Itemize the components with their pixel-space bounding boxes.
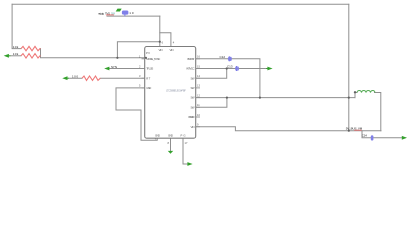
svg-text:VIN: VIN (170, 48, 174, 52)
wire right pin SW1 down-tie (196, 69, 227, 79)
svg-text:C12: C12 (220, 55, 226, 59)
wire resistor R2 lead (9, 55, 21, 57)
wire left vertical from top net to resistor R1 (12, 4, 21, 48)
wire inductor right lead down (375, 93, 381, 131)
resistor R2 (21, 54, 41, 58)
svg-text:16: 16 (197, 55, 200, 59)
junction dots (116, 41, 356, 132)
port arrow left pin 2 (104, 67, 109, 71)
svg-text:17: 17 (185, 141, 188, 145)
svg-text:SW: SW (191, 96, 195, 100)
wire right pin INTVCC to port (196, 68, 268, 70)
svg-text:PG: PG (181, 134, 186, 138)
wire right pin VIN to bottom rail (196, 127, 381, 131)
resistor R1 (21, 46, 41, 50)
svg-text:8: 8 (168, 141, 170, 145)
svg-text:10: 10 (197, 113, 200, 117)
ground arrow down (168, 151, 173, 154)
svg-text:net_sig: net_sig (98, 11, 104, 15)
wire left pin 2 to port (109, 68, 145, 70)
svg-text:RT: RT (146, 76, 150, 80)
svg-text:11: 11 (197, 103, 200, 107)
svg-text:VIN: VIN (159, 48, 163, 52)
wire junction riser to top pin net (117, 42, 159, 58)
svg-text:5: 5 (139, 84, 141, 88)
wire TVS net horizontal (107, 15, 160, 17)
svg-text:15: 15 (197, 64, 200, 68)
svg-text:12: 12 (197, 93, 200, 97)
svg-text:GND: GND (155, 134, 160, 138)
capacitor C1 on BST wire (229, 56, 231, 61)
wire left pin 4 loop to bottom pin (116, 88, 157, 140)
svg-text:C14: C14 (362, 133, 367, 137)
svg-text:TR_SS: TR_SS (146, 67, 153, 71)
svg-text:INTVCC: INTVCC (187, 67, 195, 71)
net label texts (tiny smudges) (13, 11, 367, 137)
red underline 5V_BUS label (354, 129, 362, 131)
svg-text:3: 3 (139, 74, 141, 78)
svg-text:PV: PV (146, 51, 150, 55)
wire top net VIN horizontal (12, 3, 349, 5)
resistor R3 (82, 76, 100, 80)
svg-text:SW: SW (191, 76, 195, 80)
wire right vertical x=349 top net down to output node (348, 4, 350, 130)
port arrow left of R3 (62, 76, 67, 80)
capacitor C3 output (371, 135, 374, 140)
svg-text:GND: GND (146, 86, 151, 90)
svg-text:10: 10 (129, 11, 134, 15)
wire left pin 3 resistor leads (67, 77, 83, 79)
svg-text:2: 2 (139, 64, 141, 68)
svg-text:C13: C13 (227, 65, 233, 69)
svg-text:13: 13 (197, 84, 200, 88)
inductor L1 (357, 90, 375, 92)
svg-text:SW: SW (191, 86, 195, 90)
port arrow INTVCC right (267, 67, 272, 71)
IC U1 body (145, 47, 196, 139)
svg-text:9: 9 (197, 123, 199, 127)
IC U1 right pin stubs (142, 59, 201, 127)
svg-text:MODE_SYNC: MODE_SYNC (146, 57, 160, 61)
svg-text:100: 100 (72, 74, 78, 78)
green flag top cluster (116, 9, 122, 12)
wire ground pin stub (170, 138, 172, 151)
wire output cap branch (362, 131, 405, 138)
port arrow output right (402, 136, 407, 140)
port arrow bottom bend (187, 162, 192, 166)
svg-text:VIN: VIN (191, 125, 195, 129)
svg-text:10k: 10k (13, 52, 19, 56)
svg-text:BOOST: BOOST (188, 57, 195, 61)
svg-text:LTC3686EUDC#PBF: LTC3686EUDC#PBF (166, 88, 186, 92)
wire right pin SW3 up-tie (196, 98, 227, 108)
svg-text:10k: 10k (13, 45, 19, 49)
wire right pin BST to boost cap node (196, 59, 260, 98)
svg-text:GND: GND (168, 134, 173, 138)
wire resistor join to IC pin MODE (41, 49, 145, 58)
pin number labels (139, 41, 200, 145)
IC internal pin name labels (146, 48, 195, 138)
svg-text:6: 6 (162, 41, 164, 45)
svg-text:4: 4 (173, 41, 175, 45)
capacitor C2 on INTVCC wire (236, 66, 238, 71)
wire top pin 2 jog (160, 33, 171, 47)
svg-text:14: 14 (197, 74, 200, 78)
red underline TVS label (106, 14, 114, 16)
TVS blue symbol top cluster (122, 11, 128, 15)
svg-text:SW: SW (191, 105, 195, 109)
wire bottom port pin bend (183, 138, 187, 164)
svg-text:PGOOD: PGOOD (189, 115, 195, 119)
wire inductor left stub (355, 93, 357, 98)
wire top pin 1 vertical (159, 16, 161, 46)
port arrow left of R2 (4, 54, 9, 58)
svg-text:SYN: SYN (111, 65, 117, 69)
wire right pin SW2 switch node (196, 97, 355, 99)
